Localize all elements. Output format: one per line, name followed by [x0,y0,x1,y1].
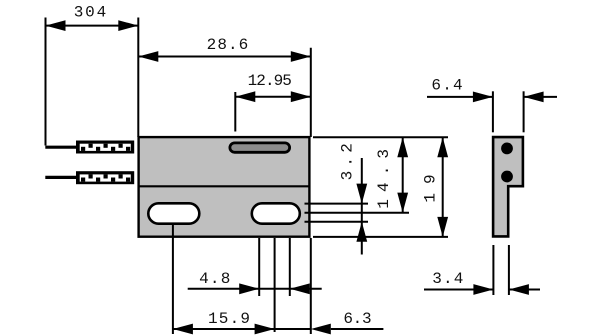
svg-text:3.4: 3.4 [432,270,464,288]
dim 3.4 arrow right [509,284,529,295]
dim 12.95 arrow left [235,91,255,102]
dim 3.4 left tail [424,289,493,291]
ext line slot top right [305,203,369,205]
dim 3.4 ext line right [508,245,510,295]
dim 3.2 arrow upper [356,184,367,204]
ext line body right below [310,238,312,334]
dim 15.9 arrow left [173,324,193,335]
extension line body right top [310,48,312,137]
dim 304 arrow left [46,20,66,31]
svg-text:6.4: 6.4 [431,76,463,94]
terminal 2 [76,171,134,184]
left mounting slot [148,203,199,223]
dim 28.6 line [138,56,310,58]
dim 14.3 arrow top [397,137,408,157]
dim 14.3 line [402,137,404,212]
dim 15.9 line [173,328,311,330]
svg-text:6.3: 6.3 [343,310,371,328]
dim 6.4 right tail [524,96,557,98]
ext line left slot center below [172,225,174,334]
svg-text:28.6: 28.6 [207,36,250,54]
dim 12.95 extension line [234,92,236,132]
dim 3.2 line [361,158,363,255]
side view hole 2 [501,171,513,183]
dim 4.8 inner line [259,288,290,290]
side view body [493,137,523,236]
dim 6.4 ext line left [492,91,494,132]
body divider line [138,185,310,187]
dim 6.4 arrow left [473,92,493,103]
svg-text:19: 19 [422,165,440,202]
terminal 1 [76,141,134,154]
dim 12.95 line [235,96,310,98]
svg-text:4.8: 4.8 [199,270,231,288]
dim 4.8 left tail [188,288,260,290]
wire 2 [45,176,78,179]
ext line body bottom right [313,236,448,238]
dim 304 extension line left [45,18,47,146]
dim 3.2 arrow lower [356,222,367,242]
main body top view [139,137,310,237]
right mounting slot [252,203,300,223]
dim 304 arrow right [118,20,138,31]
ext line right slot center below [274,238,276,332]
svg-text:304: 304 [74,3,108,21]
dim 12.95 arrow right [291,91,311,102]
dim 19 line [442,137,444,237]
dim 15.9 arrow right / 6.3 arrow left [255,324,275,335]
dim 3.4 ext line left [492,245,494,295]
svg-text:15.9: 15.9 [208,310,251,328]
dim 28.6 arrow right [291,51,311,62]
dim 6.4 arrow right [524,92,544,103]
svg-text:12.95: 12.95 [248,72,292,90]
dim 28.6 arrow left [138,51,158,62]
dim 14.3 arrow bottom [397,193,408,213]
svg-text:14.3: 14.3 [375,142,393,209]
ext line slot bottom right [305,221,369,223]
dim 6.3 arrow right [311,324,331,335]
dim 304 extension line right [137,18,139,138]
dim 6.3 right tail [331,328,384,330]
ext line right slot right arc below [289,238,291,296]
svg-text:3.2: 3.2 [339,139,357,180]
dim 6.4 ext line right [523,91,525,132]
dim 4.8 right tail [290,288,322,290]
dim 4.8 arrow left [239,283,259,294]
dim 3.4 right tail [509,289,540,291]
dim 19 arrow top [437,137,448,157]
wire 1 [45,146,78,149]
side view hole 1 [501,143,513,155]
dim 6.4 left tail [427,96,493,98]
ext line body top right [313,136,448,138]
dim 4.8 arrow right [290,283,310,294]
dim 3.4 arrow left [473,284,493,295]
dim 304 line [46,25,139,27]
top slot (dark) [230,143,290,152]
dim 19 arrow bottom [437,217,448,237]
ext line right slot left arc below [258,238,260,296]
ext line slot center right [305,212,410,214]
